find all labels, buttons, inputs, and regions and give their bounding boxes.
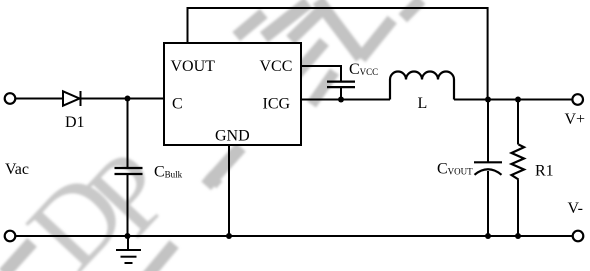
inductor L: [390, 72, 454, 100]
svg-text:V-: V-: [568, 200, 583, 217]
svg-text:Vac: Vac: [5, 161, 29, 178]
resistor R1: [512, 100, 525, 237]
wire: VCC pin to CVCC: [301, 66, 341, 81]
svg-text:R1: R1: [535, 163, 554, 180]
diode D1: [63, 91, 81, 106]
capacitor CVOUT (polarized): [474, 162, 502, 175]
IC U1 body: [164, 43, 301, 145]
svg-text:C: C: [172, 96, 183, 113]
wire: CVCC to ICG line: [340, 88, 342, 100]
node: GND junction: [226, 233, 232, 239]
svg-text:CBulk: CBulk: [154, 164, 183, 181]
wire: bottom rail: [16, 235, 573, 237]
svg-text:VOUT: VOUT: [171, 58, 216, 75]
node: D1/CBulk junction: [125, 96, 131, 102]
svg-text:VCC: VCC: [260, 58, 293, 75]
terminal V+: [572, 94, 583, 105]
wire: output node down to CVOUT: [487, 100, 489, 162]
terminal Vac top (+): [5, 93, 16, 104]
node: R1 top junction: [515, 97, 521, 103]
node: R1 bottom junction: [515, 233, 521, 239]
capacitor CVCC: [327, 82, 355, 88]
node: CVOUT bottom junction: [485, 233, 491, 239]
wire: CVOUT to bottom rail: [487, 171, 489, 236]
node: output/CVOUT junction: [485, 97, 491, 103]
wire: ICG pin to inductor: [301, 99, 390, 101]
svg-text:ICG: ICG: [263, 96, 291, 113]
svg-text:L: L: [418, 95, 428, 112]
wire: D1 cathode to pin C: [81, 98, 165, 100]
terminal Vac bottom (-): [5, 231, 16, 242]
capacitor CBulk: [115, 99, 143, 237]
svg-text:D1: D1: [65, 114, 85, 131]
svg-text:CVCC: CVCC: [349, 61, 378, 78]
ground: [116, 236, 141, 263]
wire: GND pin to bottom rail: [228, 145, 230, 236]
svg-text:GND: GND: [215, 128, 250, 145]
node: CVCC/ICG junction: [338, 97, 344, 103]
svg-text:CVOUT: CVOUT: [437, 161, 473, 178]
wire: inductor to V+ terminal: [454, 99, 572, 101]
wire: VOUT pin up and across to output node: [188, 8, 488, 100]
node: CBulk/ground junction: [125, 233, 131, 239]
terminal V-: [573, 231, 584, 242]
svg-text:V+: V+: [565, 111, 586, 128]
wire: Vac top terminal to D1 anode: [16, 98, 64, 100]
